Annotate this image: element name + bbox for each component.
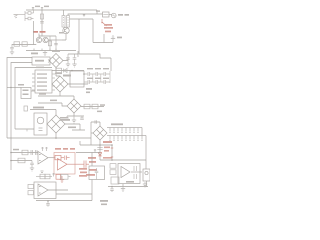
op-amp A4 box [34, 182, 56, 199]
wire to B3 left [38, 103, 67, 106]
wire y109 row [30, 110, 56, 116]
input resistor Ra [28, 184, 34, 188]
label near K2 [18, 84, 24, 86]
wire left bottom junctions [10, 152, 12, 154]
label above fuse [96, 10, 100, 11]
node y145 [99, 144, 101, 146]
label under A5 [126, 181, 134, 183]
wire cap rail top [68, 51, 78, 57]
ground oscillator rail [43, 51, 47, 56]
wire bottom return y201 [36, 180, 92, 201]
capacitor C4 with ground [66, 54, 70, 67]
op-amp A5 box [118, 164, 140, 184]
resistor R10 [84, 104, 90, 109]
wire Q1 collector chain [48, 39, 62, 41]
red comp pair right [56, 174, 61, 179]
wire y160 row left [11, 160, 32, 162]
fuse F2 on row [56, 68, 62, 72]
aux box labels [23, 90, 29, 96]
red label in box [79, 168, 87, 177]
crystal block X1 [25, 10, 34, 21]
label y109 [33, 107, 44, 109]
bridge rectifier B4 [47, 115, 65, 133]
node y201 [47, 200, 49, 202]
ground C13 [30, 168, 34, 171]
node tick y152 [94, 149, 96, 153]
pin dots row 2 [109, 140, 142, 141]
label above cap bank [87, 68, 109, 69]
resistor R11 [92, 104, 98, 109]
node ticks on oscillator rail [34, 49, 56, 51]
label red mains [104, 24, 113, 32]
resistor R4 vertical [48, 36, 51, 51]
wire y160 to corner [145, 160, 147, 169]
supply tick stub 2 [45, 147, 47, 151]
op-amp A5 triangle [121, 167, 130, 178]
node tick on y129 [26, 129, 28, 131]
label near D2 [55, 73, 62, 75]
label near Q2 [59, 32, 64, 34]
input resistor Rb [28, 191, 34, 195]
wire T1 to Q2 [62, 27, 66, 40]
capacitor C8 [65, 116, 69, 119]
label B4 right [60, 117, 68, 119]
capacitor C16 below rail [110, 187, 114, 193]
wire mains bottom y42 [93, 42, 113, 44]
wire Q1 base [33, 21, 35, 45]
ground right of mains [111, 36, 115, 43]
wire A5 out [131, 171, 142, 173]
node +Ub tick A [32, 7, 34, 10]
wire A4 out [48, 189, 68, 191]
gray comp box [61, 174, 71, 179]
wire y106 small boxes [81, 106, 104, 108]
label above rail B [44, 6, 49, 8]
wire B1 left [49, 60, 50, 62]
wire B2 right [68, 83, 88, 85]
wire right riser x91 [90, 122, 92, 145]
wire header right drops [142, 128, 146, 161]
node tick above A4 [52, 173, 54, 177]
pin stub top left [24, 106, 28, 111]
wire cap bank verticals [93, 71, 110, 83]
wire input row [12, 44, 36, 46]
node tick T1 out [83, 14, 85, 16]
bridge rectifier B5 [93, 126, 107, 140]
wire upper row from K1 [52, 70, 84, 72]
wire meter to B4 [46, 123, 48, 125]
op-amp A2 [38, 152, 48, 165]
capacitor C1 [40, 22, 44, 24]
capacitor C13 vertical [30, 161, 34, 169]
node junction row [71, 70, 73, 72]
wire B1 bottom to B2 [56, 68, 60, 77]
wire T1 secondary to right [68, 14, 103, 43]
label under rail [31, 53, 38, 55]
wire x112 riser [111, 145, 113, 160]
wire vertical from rail to Q1 [41, 10, 43, 36]
red text right column [86, 157, 97, 176]
small box under A5 [111, 177, 119, 184]
transistor Q2b [43, 37, 48, 42]
output pin header row 1 [107, 128, 142, 132]
wire bus3 to meter [15, 128, 34, 130]
wire bus line 1 [7, 58, 32, 139]
node bus y87 [10, 87, 11, 88]
node y145 x112 [111, 144, 113, 146]
ground bottom right 2 [143, 182, 147, 187]
wire top supply rail [26, 9, 97, 11]
label above rail A [35, 6, 40, 8]
output pin header row 2 [107, 136, 146, 140]
wire bus line 3 [15, 68, 52, 130]
terminal block row labels [37, 73, 47, 90]
wire B3 bottom caps [67, 113, 84, 116]
terminal block left pins [32, 74, 35, 90]
label end y106 [100, 104, 105, 106]
wire aux box to K1 [31, 90, 35, 92]
aux box K2 [21, 88, 31, 99]
capacitor C12 pair [31, 150, 37, 155]
wire A2 out [48, 157, 55, 159]
diode D6 on row [64, 69, 68, 73]
label near x97 [97, 111, 102, 113]
capacitor C3 vertical [54, 36, 58, 51]
wire B5 bottom [99, 140, 101, 145]
label above cap bank row2 [87, 78, 109, 79]
label in filter box [35, 60, 44, 62]
ground bottom right 1 [121, 187, 125, 192]
label +40V red [103, 141, 112, 143]
wire x92 riser gray [91, 153, 93, 167]
wire y122 to B5 [91, 122, 100, 126]
label B2 [63, 75, 71, 77]
red tick marks x112 [111, 148, 113, 157]
bridge rectifier B2 [52, 76, 68, 92]
capacitor bank row 2 [84, 80, 110, 84]
AC source plug [109, 13, 116, 18]
capacitor C9 [80, 116, 84, 119]
wire collector rail [39, 34, 56, 38]
wire x100 riser [99, 145, 101, 160]
wire y87 to aux box [7, 87, 21, 89]
capacitor C5 with ground [72, 54, 76, 67]
label bottom small [100, 200, 108, 205]
label B1 [52, 50, 60, 52]
wire K1 to B2 [51, 83, 53, 85]
antenna symbol [14, 15, 26, 19]
wire bottom right rail [108, 186, 148, 188]
wire y152 row [11, 152, 38, 154]
transistor Q1 [36, 37, 41, 42]
switch S1 red [101, 19, 106, 26]
regulator box lower mid [89, 166, 105, 180]
wire T1 primary top [63, 10, 65, 16]
resistor R20 [22, 150, 28, 155]
resistor R1 [40, 14, 43, 19]
wire B5 left [91, 132, 93, 134]
node y160 x11 [10, 160, 12, 162]
wire y152 right top [76, 152, 100, 154]
label B4 right [60, 119, 70, 121]
filter box FL1 [32, 57, 50, 65]
transistor box right [143, 169, 150, 181]
wire long bottom rail y138 [7, 137, 91, 139]
wire B4 bottom to long rail [55, 133, 57, 138]
label 230V [118, 14, 129, 16]
pin dots row 1 [109, 132, 138, 133]
wire A4 to regulator return [56, 193, 92, 195]
node cap bank [83, 73, 85, 75]
fuse F1 [103, 12, 110, 17]
bridge rectifier B1 [49, 54, 63, 68]
capacitor C15 below [46, 201, 50, 207]
wire A5 box to rail [122, 184, 124, 187]
op-amp A3 red block [54, 153, 84, 175]
label above K1 [36, 67, 44, 69]
label at x118 [117, 37, 122, 39]
wire rail corner to fuse [96, 10, 98, 14]
resistor R2 [14, 42, 20, 46]
wire y160 long [100, 159, 146, 161]
wire B3 right [80, 105, 82, 107]
components above A4 [36, 171, 52, 179]
bridge rectifier B3 [67, 99, 81, 113]
resistor R30 [110, 164, 116, 169]
terminal block right pins [52, 74, 55, 90]
relay box RE1 [70, 71, 84, 88]
supply tick stub 1 [41, 147, 43, 151]
transformer T1 [62, 16, 70, 28]
wire bus line 2 [11, 63, 32, 171]
wire B1 right [63, 57, 68, 60]
A5 inner comps [134, 166, 137, 179]
red caps right of A3 [84, 161, 89, 168]
meter box M1 [34, 113, 47, 135]
diode D7 red [98, 153, 102, 156]
transistor Q2 [63, 27, 69, 33]
label under B4 wire [68, 127, 76, 129]
label above comb [111, 123, 123, 125]
resistor R3 [22, 42, 27, 46]
resistor R21 [18, 158, 25, 163]
node x112 y160 [111, 159, 113, 161]
capacitor C14 red [65, 156, 70, 160]
label under cap bank [86, 88, 92, 93]
wire bottom rail of oscillator [26, 50, 76, 52]
terminal block K1 [35, 70, 52, 93]
op-amp A4 triangle [38, 184, 48, 196]
node +Ub tick B [41, 7, 43, 10]
wire B2 bottom [38, 92, 68, 96]
label above y152 [13, 149, 19, 151]
resistor R22 red [55, 155, 64, 159]
wire B4 right [65, 124, 85, 130]
wire y145 [80, 141, 112, 145]
capacitor C2 with ground [10, 44, 14, 55]
label left of B3 [50, 100, 57, 102]
resistor R31 [110, 170, 116, 175]
node B4 on rail [55, 137, 57, 139]
red ground A3 [60, 176, 64, 183]
capacitor bank row 1 [84, 72, 110, 76]
node x112 y186 [111, 186, 113, 188]
label red x104 column [103, 147, 112, 159]
wire B3 top [68, 96, 74, 99]
label red TR oscillator [33, 31, 46, 33]
capacitor C10 on y122 [95, 120, 97, 124]
wire switch drop [103, 34, 105, 43]
label red row y149 [55, 148, 75, 150]
wire secondary staircase [79, 19, 111, 71]
ground B3 [72, 116, 76, 123]
wire right box to rail [146, 181, 148, 187]
capacitor C11 on x100 [97, 148, 102, 150]
label y96 [39, 93, 46, 95]
